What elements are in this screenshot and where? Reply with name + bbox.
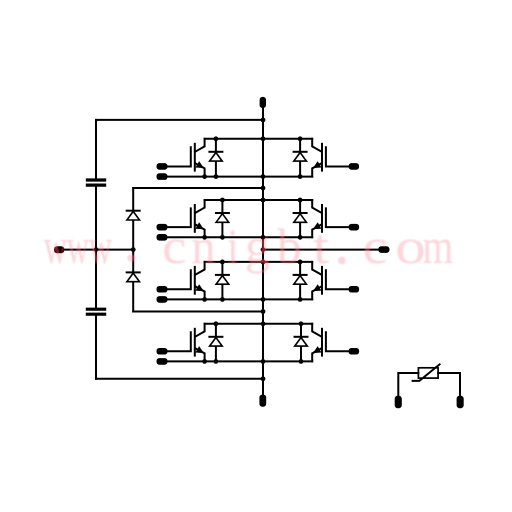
wire: top link bus to center [96, 119, 263, 121]
terminal E3L (aux emitter pill, left) [157, 296, 168, 303]
watermark underlayer www.cnigbt.com [44, 218, 453, 275]
diode D5 (clamp) [127, 211, 140, 220]
node: center column junctions [261, 118, 266, 382]
watermark overlay www.cnigbt.com [44, 218, 453, 275]
wire: clamp bottom link to center [133, 311, 263, 313]
terminal E1L (aux emitter pill, left) [157, 173, 168, 180]
terminal G4R (gate pill, right) [349, 348, 360, 355]
wire: neutral terminal to bus and clamp column [64, 249, 133, 251]
node: clamp midpoint junction [131, 247, 136, 252]
terminal G1R (gate pill, right) [349, 163, 360, 170]
terminal G1L (gate pill, left) [157, 163, 168, 170]
node: row 4 rail junctions [202, 321, 303, 363]
terminal NP (neutral) [54, 246, 64, 253]
diode D1L [209, 139, 222, 177]
svg-text:c: c [363, 219, 388, 274]
wire: row 3 collector rail [205, 261, 313, 263]
svg-text:w: w [89, 220, 113, 275]
transistor Q2R (IGBT, right) [312, 200, 348, 237]
node: row 1 rail junctions [202, 136, 302, 179]
svg-text:g: g [245, 218, 270, 274]
svg-text:b: b [277, 219, 301, 275]
wire: row 2 collector rail [205, 199, 313, 201]
wire: row 3 emitter rail [168, 298, 313, 300]
terminal G2L (gate pill, left) [157, 224, 168, 231]
transistor Q1L (IGBT, left) [168, 139, 205, 177]
terminal G3R (gate pill, right) [349, 286, 360, 293]
svg-text:i: i [227, 219, 238, 274]
wire: DC+ center column (top terminal to bottom terminal) [262, 108, 264, 395]
svg-text:w: w [44, 220, 68, 275]
transistor Q3R (IGBT, right) [312, 262, 348, 300]
terminal AC (output) [378, 246, 389, 253]
node: neutral bus junction [94, 247, 99, 252]
svg-text:w: w [67, 218, 89, 274]
thermistor RT1 [413, 364, 440, 381]
terminal G2R (gate pill, right) [349, 224, 360, 231]
wire: thermistor left lead [398, 373, 418, 396]
terminal E4L (aux emitter pill, left) [157, 358, 168, 365]
diode D2L [216, 200, 229, 237]
wire: row 1 emitter rail [168, 176, 313, 178]
diode D3L [216, 262, 229, 300]
capacitor C2 [87, 309, 104, 314]
wire: clamp diode column [132, 188, 134, 312]
terminal T2 (thermistor) [457, 396, 464, 409]
wire: left capacitor bus upper segment [95, 120, 97, 178]
terminal N (DC-) [259, 395, 266, 407]
svg-text:t: t [313, 218, 329, 274]
terminal T1 (thermistor) [395, 396, 402, 409]
transistor Q4R (IGBT, right) [312, 324, 348, 362]
terminal P (DC+) [260, 97, 266, 108]
diode D2R [294, 200, 307, 237]
wire: row 2 emitter rail [168, 236, 313, 238]
node: row 2 rail junctions [202, 198, 302, 240]
transistor Q1R (IGBT, right) [312, 139, 348, 177]
wire: row 4 collector rail [205, 323, 313, 325]
wire: row 1 collector rail [205, 138, 313, 140]
terminal G3L (gate pill, left) [157, 286, 168, 293]
svg-text:o: o [395, 219, 426, 274]
diode D6 (clamp) [127, 272, 140, 281]
wire: left capacitor bus lower segment [95, 316, 97, 379]
wire: AC output to right terminal [263, 249, 378, 251]
transistor Q2L (IGBT, left) [168, 200, 205, 237]
wire: thermistor right lead [438, 373, 460, 396]
terminal G4L (gate pill, left) [157, 348, 168, 355]
svg-text:c: c [162, 220, 186, 275]
diode D1R [294, 139, 307, 177]
transistor Q3L (IGBT, left) [168, 262, 205, 300]
wire: clamp top link to center [133, 187, 263, 189]
svg-text:n: n [191, 218, 215, 274]
diode D4L [209, 324, 222, 362]
svg-text:m: m [422, 219, 453, 274]
terminal E2L (aux emitter pill, left) [157, 234, 168, 241]
capacitor C1 [87, 180, 104, 185]
node: row 3 rail junctions [202, 260, 302, 302]
wire: bottom link bus to center [96, 378, 263, 380]
transistor Q4L (IGBT, left) [168, 324, 205, 362]
diode D3R [294, 262, 307, 300]
wire: left capacitor bus middle segment [95, 187, 97, 308]
diode D4R [295, 324, 308, 362]
wire: row 4 emitter rail [168, 360, 313, 362]
